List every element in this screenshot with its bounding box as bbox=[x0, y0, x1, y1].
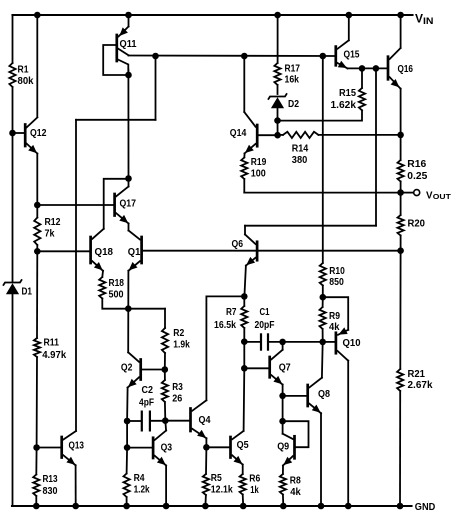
svg-text:Q4: Q4 bbox=[199, 415, 211, 426]
svg-text:100: 100 bbox=[251, 168, 266, 179]
wire R2 to node bbox=[164, 353, 166, 370]
svg-text:4.97k: 4.97k bbox=[42, 350, 66, 361]
svg-text:R5: R5 bbox=[211, 473, 222, 484]
resistor R16 bbox=[398, 160, 404, 182]
transistor Q4 bbox=[167, 400, 206, 438]
junction Q3 gnd bbox=[163, 503, 170, 510]
resistor R14 bbox=[283, 132, 318, 138]
resistor R13 bbox=[33, 475, 39, 497]
wire D2 to node bbox=[277, 109, 279, 121]
wire Q15 emit line bbox=[348, 67, 387, 69]
label R5 bbox=[211, 473, 222, 484]
label Q11 bbox=[120, 39, 137, 50]
svg-text:Q13: Q13 bbox=[69, 440, 85, 451]
svg-text:1.9k: 1.9k bbox=[173, 339, 190, 350]
wire R7 top lead bbox=[243, 296, 245, 306]
node VOUT terminal bbox=[414, 190, 420, 196]
wire C2 right lead bbox=[151, 420, 165, 422]
wire VIN rail bbox=[13, 14, 413, 16]
resistor R17 bbox=[274, 63, 280, 85]
junction Q9 node bbox=[279, 418, 286, 425]
node GND label bbox=[415, 501, 436, 513]
svg-text:R14: R14 bbox=[292, 143, 309, 154]
junction Q7 base node bbox=[241, 365, 248, 372]
wire Q13 emit to gnd bbox=[75, 465, 77, 506]
resistor R21 bbox=[397, 369, 403, 391]
label Q1 bbox=[128, 247, 141, 258]
svg-text:R7: R7 bbox=[226, 307, 237, 318]
wire Q17 base bbox=[37, 204, 113, 206]
svg-text:R4: R4 bbox=[134, 473, 145, 484]
diode D2 bbox=[268, 93, 287, 108]
label R10 val bbox=[329, 277, 344, 288]
wire R13 to GND bbox=[35, 496, 37, 506]
label R18 bbox=[109, 278, 125, 289]
junction R12 top bbox=[34, 202, 41, 209]
transistor Q6 bbox=[245, 234, 257, 265]
wire vout line y192 bbox=[244, 192, 400, 194]
wire Q10 coll to gnd bbox=[347, 361, 349, 506]
resistor R5 bbox=[203, 474, 209, 495]
svg-text:R13: R13 bbox=[43, 474, 58, 485]
svg-text:1.62k: 1.62k bbox=[331, 100, 357, 111]
resistor R1 bbox=[9, 63, 15, 87]
label R10 bbox=[329, 266, 345, 277]
transistor Q16 bbox=[388, 15, 401, 89]
junction Q13 gnd bbox=[72, 503, 79, 510]
svg-text:4k: 4k bbox=[329, 322, 340, 333]
junction R8 gnd bbox=[280, 503, 287, 510]
label R13 val bbox=[43, 486, 58, 497]
junction R7 top node bbox=[241, 293, 248, 300]
svg-text:16k: 16k bbox=[285, 74, 300, 85]
wire R14 left lead bbox=[278, 134, 283, 136]
wire x37 to R11 bbox=[36, 251, 38, 338]
svg-text:Q9: Q9 bbox=[277, 441, 289, 452]
svg-text:Q15: Q15 bbox=[344, 49, 360, 60]
wire x76 down bbox=[75, 120, 77, 431]
wire y120 right bbox=[278, 110, 363, 120]
wire Q9 base loop bbox=[283, 421, 309, 447]
svg-text:4k: 4k bbox=[290, 487, 301, 498]
wire R6 to gnd bbox=[242, 495, 245, 507]
wire tail to R2 bbox=[164, 309, 166, 328]
wire Q16 emit down bbox=[400, 89, 402, 135]
junction R6 gnd bbox=[240, 503, 247, 510]
svg-text:R9: R9 bbox=[329, 311, 340, 322]
junction Q13 base node bbox=[33, 444, 40, 451]
label C2 bbox=[142, 385, 154, 396]
wire bias line y56 bbox=[129, 55, 335, 58]
wire Q3 emit to gnd bbox=[165, 466, 167, 507]
wire R12 leads bbox=[36, 205, 38, 218]
resistor R8 bbox=[280, 474, 286, 495]
resistor R2 bbox=[162, 328, 168, 353]
wire R3 to node bbox=[164, 402, 166, 421]
wire Q1 emit down bbox=[127, 271, 129, 309]
label R13 bbox=[43, 474, 58, 485]
svg-text:R1: R1 bbox=[18, 64, 29, 75]
junction Q17 collector node bbox=[125, 175, 132, 182]
svg-text:R11: R11 bbox=[44, 338, 60, 349]
svg-text:80k: 80k bbox=[18, 76, 34, 87]
wire Q17 emit to Q1 bbox=[128, 224, 130, 231]
svg-text:R18: R18 bbox=[109, 278, 125, 289]
svg-text:850: 850 bbox=[329, 277, 344, 288]
label Q8 bbox=[318, 389, 330, 400]
svg-text:R3: R3 bbox=[172, 382, 183, 393]
svg-text:OUT: OUT bbox=[433, 192, 451, 201]
svg-text:C1: C1 bbox=[260, 307, 270, 318]
label Q5 bbox=[237, 440, 249, 451]
label R17 bbox=[285, 63, 301, 74]
junction C2 right node bbox=[162, 417, 169, 424]
junction R14 left node bbox=[274, 132, 281, 139]
label Q16 bbox=[398, 64, 414, 75]
resistor R10 bbox=[320, 263, 326, 286]
junction R17 rail bbox=[274, 12, 281, 19]
junction Q11 bc tie bbox=[125, 72, 132, 79]
label Q15 bbox=[344, 49, 360, 60]
wire x323 down bbox=[322, 56, 324, 263]
svg-text:7k: 7k bbox=[45, 228, 55, 239]
transistor Q12 bbox=[13, 118, 38, 154]
label R12 bbox=[45, 217, 61, 228]
svg-text:Q16: Q16 bbox=[398, 64, 414, 75]
svg-text:Q11: Q11 bbox=[120, 39, 137, 50]
svg-text:R19: R19 bbox=[251, 157, 267, 168]
wire R12 lower lead bbox=[36, 245, 38, 251]
label Q10 bbox=[343, 338, 361, 349]
wire R20 to node bbox=[400, 236, 402, 251]
wire Q3 coll up bbox=[164, 421, 167, 431]
junction Q12 base bbox=[9, 130, 16, 137]
svg-text:12.1k: 12.1k bbox=[211, 484, 233, 495]
wire R17 top lead bbox=[277, 15, 279, 63]
svg-text:2.67k: 2.67k bbox=[408, 380, 433, 391]
label Q12 bbox=[30, 128, 47, 139]
wire Q8 emit to gnd bbox=[320, 413, 322, 506]
wire Q6 emit down bbox=[244, 266, 246, 297]
wire R19 to vout line bbox=[243, 179, 245, 193]
resistor R11 bbox=[34, 338, 40, 357]
wire R8 to gnd bbox=[282, 495, 284, 507]
junction Q16 coll rail bbox=[397, 12, 404, 19]
junction Q10 base node bbox=[319, 339, 326, 346]
transistor Q18 bbox=[91, 229, 104, 271]
wire node to R21 bbox=[399, 251, 401, 369]
resistor R7 bbox=[241, 306, 247, 328]
label D1 bbox=[22, 286, 33, 297]
svg-text:380: 380 bbox=[292, 155, 308, 166]
label Q6 bbox=[232, 239, 244, 250]
resistor R18 bbox=[99, 277, 105, 299]
label R2 val bbox=[173, 339, 190, 350]
label R4 val bbox=[134, 484, 150, 495]
junction C1 left node bbox=[241, 338, 248, 345]
svg-text:R2: R2 bbox=[173, 328, 184, 339]
svg-text:Q10: Q10 bbox=[343, 338, 361, 349]
junction x37 rail bbox=[34, 12, 41, 19]
svg-text:Q6: Q6 bbox=[232, 239, 244, 250]
svg-text:20pF: 20pF bbox=[255, 320, 275, 331]
svg-text:Q14: Q14 bbox=[230, 128, 247, 139]
wire VOUT to R20 bbox=[400, 193, 402, 215]
wire R18 to tail node bbox=[102, 299, 165, 309]
label R15 bbox=[339, 88, 356, 99]
svg-text:R17: R17 bbox=[285, 63, 301, 74]
capacitor C1 bbox=[261, 333, 268, 350]
wire R5 to gnd bbox=[204, 495, 207, 506]
resistor R6 bbox=[240, 474, 246, 495]
wire node to R5 bbox=[205, 447, 207, 474]
wire R9 bottom lead bbox=[322, 329, 324, 342]
label R21 val bbox=[408, 380, 433, 391]
wire Q4 coll up bbox=[205, 296, 207, 400]
wire R10 to node bbox=[322, 286, 324, 298]
svg-text:GND: GND bbox=[415, 501, 436, 513]
junction tail node bbox=[125, 305, 132, 312]
label R9 val bbox=[329, 322, 340, 333]
diode D1 bbox=[3, 279, 22, 294]
wire left rail lower bbox=[12, 294, 14, 506]
junction Q11 emitter rail bbox=[125, 12, 132, 19]
junction D2 R15 node bbox=[274, 117, 281, 124]
label R11 val bbox=[42, 350, 66, 361]
junction R20 R21 node bbox=[397, 247, 404, 254]
wire Q14 emit to R19 bbox=[243, 153, 245, 157]
junction bias x244 bbox=[241, 53, 248, 60]
wire x244 mid bbox=[243, 342, 245, 369]
label Q14 bbox=[230, 128, 247, 139]
svg-text:1k: 1k bbox=[250, 485, 259, 496]
wire Q7 node down bbox=[282, 396, 284, 421]
wire Q3 node to R4 bbox=[126, 448, 129, 474]
label R11 bbox=[44, 338, 60, 349]
svg-text:1.2k: 1.2k bbox=[134, 484, 150, 495]
wire Q9 emit to R8 bbox=[282, 466, 284, 475]
label C1 val bbox=[255, 320, 275, 331]
label Q17 bbox=[120, 198, 137, 209]
wire C2 left lead bbox=[127, 420, 141, 422]
capacitor C2 bbox=[142, 411, 150, 432]
svg-text:R6: R6 bbox=[249, 473, 260, 484]
wire R21 to gnd bbox=[399, 391, 401, 506]
wire x155 down bbox=[155, 56, 157, 120]
node VOUT label bbox=[426, 190, 451, 201]
transistor Q15 bbox=[336, 15, 349, 68]
wire Q12 emitter to R12 bbox=[36, 154, 38, 206]
junction R13 gnd bbox=[33, 503, 40, 510]
transistor Q14 bbox=[244, 112, 277, 153]
label D2 bbox=[288, 99, 299, 110]
resistor R20 bbox=[398, 215, 404, 236]
wire Q4 coll to R7 node bbox=[206, 295, 244, 297]
label R2 bbox=[173, 328, 184, 339]
svg-text:Q17: Q17 bbox=[120, 198, 137, 209]
resistor R12 bbox=[34, 218, 40, 246]
svg-text:R21: R21 bbox=[408, 369, 426, 380]
wire feedback line y251 bbox=[143, 250, 400, 252]
svg-text:R20: R20 bbox=[408, 218, 426, 229]
resistor R19 bbox=[241, 158, 247, 180]
wire x37 top bbox=[36, 15, 38, 117]
wire Q7 emit down bbox=[282, 385, 284, 396]
svg-text:Q1: Q1 bbox=[128, 247, 141, 258]
label Q3 bbox=[161, 442, 173, 453]
junction C2 left node bbox=[124, 418, 131, 425]
junction bias x155 bbox=[152, 53, 159, 60]
svg-text:Q3: Q3 bbox=[161, 442, 173, 453]
transistor Q10 bbox=[323, 297, 349, 361]
label Q9 bbox=[277, 441, 289, 452]
junction bias x323 bbox=[320, 53, 327, 60]
label Q7 bbox=[279, 362, 291, 373]
label R7 val bbox=[214, 320, 236, 331]
svg-text:Q5: Q5 bbox=[237, 440, 249, 451]
resistor R9 bbox=[320, 307, 326, 329]
junction R12 bottom bbox=[34, 248, 41, 255]
wire GND rail bbox=[12, 505, 412, 507]
svg-text:4pF: 4pF bbox=[139, 397, 154, 408]
label R20 bbox=[408, 218, 426, 229]
svg-text:Q8: Q8 bbox=[318, 389, 330, 400]
label R14 val bbox=[292, 155, 308, 166]
wire x376 up bbox=[375, 68, 377, 225]
wire node to R13 bbox=[35, 448, 37, 475]
junction R5 gnd bbox=[202, 503, 209, 510]
wire Q11 collector down bbox=[127, 70, 129, 179]
wire C1 left lead bbox=[244, 341, 260, 343]
label R18 val bbox=[109, 289, 124, 300]
junction Q3 base node bbox=[124, 444, 131, 451]
label Q4 bbox=[199, 415, 211, 426]
wire VOUT stub bbox=[404, 192, 413, 194]
wire R11 to Q13 node bbox=[36, 357, 38, 448]
resistor R3 bbox=[162, 380, 168, 402]
svg-text:Q2: Q2 bbox=[121, 362, 133, 373]
wire R16 to VOUT bbox=[400, 182, 402, 193]
wire Q7 coll up bbox=[282, 342, 284, 350]
junction Q15 coll rail bbox=[346, 12, 353, 19]
label R4 bbox=[134, 473, 145, 484]
wire C1 right lead bbox=[269, 341, 323, 343]
junction R21 gnd bbox=[397, 503, 404, 510]
wire R14 right lead bbox=[318, 134, 400, 136]
label C2 val bbox=[139, 397, 154, 408]
wire x244 top bbox=[243, 56, 245, 112]
transistor Q5 bbox=[206, 431, 243, 465]
label R8 bbox=[290, 475, 301, 486]
transistor Q11 bbox=[103, 15, 128, 75]
svg-text:16.5k: 16.5k bbox=[214, 320, 236, 331]
wire Q8 coll up bbox=[321, 342, 324, 378]
label R19 bbox=[251, 157, 267, 168]
transistor Q1 bbox=[128, 231, 141, 271]
resistor R15 bbox=[359, 88, 365, 110]
svg-text:R16: R16 bbox=[407, 159, 426, 170]
label R17 val bbox=[285, 74, 300, 85]
wire node to R14 node bbox=[277, 121, 279, 136]
label R14 bbox=[292, 143, 309, 154]
svg-text:C2: C2 bbox=[142, 385, 154, 396]
wire Q2 emit down bbox=[126, 388, 129, 421]
label Q2 bbox=[121, 362, 133, 373]
svg-text:Q12: Q12 bbox=[30, 128, 47, 139]
transistor Q2 bbox=[128, 352, 165, 387]
transistor Q9 bbox=[283, 421, 295, 465]
label R8 val bbox=[290, 487, 301, 498]
wire left rail middle bbox=[12, 87, 14, 282]
wire R7 bottom lead bbox=[243, 328, 245, 342]
wire x127 to Q3 base bbox=[126, 421, 128, 448]
label R16 val bbox=[407, 171, 427, 182]
junction R16 top node bbox=[397, 132, 404, 139]
svg-text:IN: IN bbox=[423, 16, 434, 26]
wire Q6 coll up bbox=[244, 226, 246, 235]
wire Q17 coll branch bbox=[104, 179, 129, 229]
junction R15 node bbox=[359, 65, 366, 72]
svg-text:R8: R8 bbox=[290, 475, 301, 486]
wire R9 top lead bbox=[322, 297, 324, 307]
junction Q2 base node bbox=[162, 366, 169, 373]
svg-text:0.25: 0.25 bbox=[407, 171, 427, 182]
transistor Q8 bbox=[283, 378, 322, 414]
junction R10 R9 node bbox=[320, 294, 327, 301]
label R3 bbox=[172, 382, 183, 393]
svg-text:26: 26 bbox=[172, 393, 182, 404]
svg-text:830: 830 bbox=[43, 486, 58, 497]
svg-text:Q7: Q7 bbox=[279, 362, 291, 373]
transistor Q3 bbox=[127, 431, 166, 466]
junction Q4 emitter node bbox=[203, 444, 210, 451]
wire Q18 base bbox=[37, 250, 89, 252]
junction Q10 gnd bbox=[345, 503, 352, 510]
wire Q18 emit to R18 bbox=[101, 271, 104, 277]
label R16 bbox=[407, 159, 426, 170]
svg-text:R15: R15 bbox=[339, 88, 356, 99]
label R19 val bbox=[251, 168, 266, 179]
junction VOUT node bbox=[397, 189, 404, 196]
wire R4 to gnd bbox=[126, 497, 128, 506]
svg-text:D2: D2 bbox=[288, 99, 299, 110]
wire Q5 emit to R6 bbox=[242, 465, 244, 474]
junction R4 gnd bbox=[123, 503, 130, 510]
label Q18 bbox=[95, 247, 114, 258]
wire R3 leads bbox=[164, 370, 166, 381]
junction Q8 gnd bbox=[318, 503, 325, 510]
label R7 bbox=[226, 307, 237, 318]
label R1 value bbox=[18, 64, 29, 75]
transistor Q7 bbox=[244, 350, 282, 385]
svg-text:D1: D1 bbox=[22, 286, 33, 297]
svg-text:R12: R12 bbox=[45, 217, 61, 228]
junction Q8 base node bbox=[279, 393, 286, 400]
wire y120 left bbox=[76, 119, 156, 121]
wire left rail upper bbox=[12, 15, 14, 63]
label R9 bbox=[329, 311, 340, 322]
transistor Q17 bbox=[115, 179, 129, 224]
label C1 bbox=[260, 307, 270, 318]
label R1 ohms bbox=[18, 76, 34, 87]
svg-text:Q18: Q18 bbox=[95, 247, 114, 258]
wire R16 top lead bbox=[400, 135, 402, 160]
junction Q16 base node bbox=[373, 65, 380, 72]
label R6 val bbox=[250, 485, 259, 496]
svg-text:500: 500 bbox=[109, 289, 124, 300]
resistor R4 bbox=[124, 474, 130, 498]
node VIN label bbox=[415, 12, 434, 26]
